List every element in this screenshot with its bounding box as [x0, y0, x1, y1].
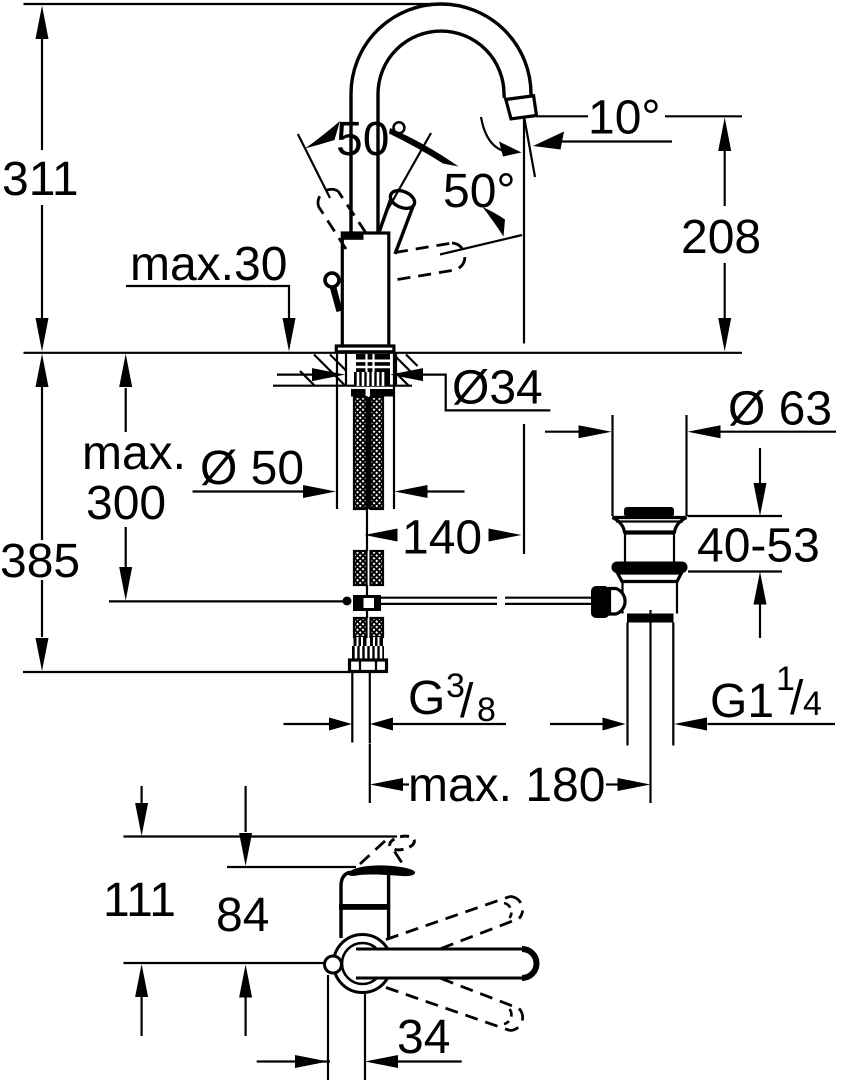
solid handle top ellipse: [388, 187, 418, 212]
top reference line: [24, 3, 442, 5]
solid handle right edge: [395, 205, 414, 254]
dim 140: [365, 529, 398, 542]
svg-text:385: 385: [0, 535, 80, 588]
dim 111: [141, 786, 143, 803]
braided hose middle: [354, 551, 367, 585]
aerator block: [506, 96, 537, 119]
waste flange ring: [612, 562, 688, 574]
svg-text:208: 208: [681, 211, 761, 264]
svg-text:G1: G1: [710, 675, 774, 728]
10deg leader line upper: [536, 115, 742, 117]
50deg lower arc arrow: [483, 207, 506, 237]
svg-text:Ø34: Ø34: [452, 362, 543, 415]
connection nut striped: [352, 646, 384, 660]
left dashed handle edge 2: [319, 207, 347, 250]
pivot small circle: [325, 956, 342, 973]
dim O34: [277, 374, 313, 376]
dashed capsule lower edge1: [441, 979, 519, 1009]
deck line: [24, 352, 743, 354]
pop-up rod segment: [366, 509, 368, 551]
40-53 reference lines: [688, 516, 783, 572]
hole edge lines: [346, 353, 396, 386]
spout arch inner: [378, 31, 504, 233]
mounting nut striped: [354, 372, 390, 386]
spout arch outer: [351, 4, 531, 233]
svg-text:311: 311: [2, 153, 79, 206]
svg-text:Ø 50: Ø 50: [200, 442, 304, 495]
hatch right: [394, 355, 418, 386]
body side: [341, 872, 389, 938]
svg-text:84: 84: [216, 889, 269, 942]
dashed capsule lower cap: [510, 1009, 523, 1031]
dim G1 1/4: [550, 723, 604, 725]
right dashed handle edge 1: [395, 243, 452, 253]
dashed capsule upper cap inner: [504, 903, 511, 918]
385 bottom reference line: [23, 671, 350, 673]
dim 34: [328, 975, 365, 1080]
right dashed handle edge 2: [398, 270, 456, 280]
10deg tilted stream line: [525, 119, 536, 177]
ball inner: [342, 943, 383, 984]
ball outer: [334, 935, 392, 993]
dim 208: [724, 150, 726, 322]
dashed capsule upper edge2: [441, 919, 519, 949]
lever knob dashed: [388, 834, 415, 852]
50deg arc arrow left: [305, 121, 340, 149]
dim max.180: [370, 778, 403, 791]
waste flare: [613, 518, 687, 533]
dashed capsule upper cap: [510, 897, 523, 919]
svg-text:Ø 63: Ø 63: [728, 383, 832, 436]
horizontal pop-up rod: [381, 598, 591, 604]
svg-text:300: 300: [86, 477, 166, 530]
lever knob connector dashes: [360, 840, 386, 864]
max300 reference line: [109, 600, 343, 602]
svg-text:4: 4: [803, 685, 822, 723]
body band: [339, 904, 390, 910]
waste actuator connector: [610, 589, 626, 615]
spout tip cut line: [505, 95, 534, 99]
left dashed handle cap: [318, 189, 338, 206]
right dashed handle cap: [452, 243, 465, 270]
svg-text:8: 8: [477, 691, 496, 729]
capsule thick end: [522, 949, 537, 978]
dashed capsule lower cap inner: [504, 1009, 511, 1024]
waste tailpipe: [628, 623, 674, 746]
counter lower line: [273, 385, 412, 387]
10deg vertical reference line: [523, 118, 525, 554]
hose crimp fittings: [354, 637, 367, 646]
dim G3/8: [284, 723, 333, 725]
50deg lower reference line: [440, 235, 522, 255]
pop-up knob rod: [330, 286, 343, 313]
body top black tab: [344, 234, 364, 240]
50deg left reference line: [298, 134, 330, 198]
dim max.300: [125, 388, 127, 567]
svg-text:max.30: max.30: [130, 238, 287, 291]
threaded shank block: [356, 354, 390, 372]
solid handle left edge: [380, 197, 392, 231]
dim 40-53: [759, 448, 761, 485]
braided hoses upper: [354, 397, 367, 509]
rod below tee: [366, 611, 368, 618]
dashed capsule upper edge1: [386, 897, 510, 940]
O63 extension lines: [613, 415, 687, 516]
braided hose lower: [354, 618, 367, 637]
waste centerline: [649, 610, 651, 803]
hatch left: [300, 355, 347, 386]
faucet axis extension: [369, 744, 371, 803]
10deg arc + arrow left: [481, 117, 505, 152]
svg-text:111: 111: [103, 874, 176, 927]
svg-text:/: /: [460, 675, 474, 728]
50deg right reference line: [388, 133, 431, 209]
svg-text:10°: 10°: [588, 92, 661, 145]
tee junction: [353, 595, 381, 611]
waste collar: [618, 573, 682, 582]
rod to tee: [366, 585, 368, 596]
pop-up knob on body: [325, 273, 339, 287]
10deg arrow right: [533, 132, 564, 150]
dim 84: [245, 786, 247, 832]
base flange: [336, 346, 394, 352]
dim 311: [41, 38, 43, 320]
dashed capsule lower edge2: [386, 988, 510, 1031]
dim 385: [41, 386, 43, 637]
washer bracket: [351, 389, 366, 397]
faucet body: [342, 233, 389, 346]
svg-text:/: /: [790, 672, 804, 725]
left dashed handle edge 1: [338, 191, 366, 233]
svg-text:G: G: [408, 672, 445, 725]
supply pipe G3/8: [352, 672, 370, 744]
O50 extension lines: [337, 352, 394, 509]
50deg arc arrow right: [389, 128, 459, 167]
svg-text:max. 180: max. 180: [408, 759, 605, 812]
waste cylinder: [625, 532, 674, 563]
svg-text:140: 140: [402, 512, 482, 565]
waste band: [627, 614, 674, 623]
rod in hose gap: [367, 397, 369, 509]
svg-text:max.: max.: [82, 427, 186, 480]
svg-text:50°: 50°: [336, 113, 409, 166]
solid lever capsule: [356, 949, 537, 978]
lever blade: [347, 865, 415, 876]
svg-text:40-53: 40-53: [697, 520, 820, 573]
svg-text:34: 34: [397, 1011, 450, 1064]
10deg leader line lower: [558, 140, 672, 142]
svg-text:50°: 50°: [443, 165, 516, 218]
waste actuator knob: [591, 586, 610, 618]
waste body: [623, 582, 678, 614]
nut lower flange: [350, 660, 387, 672]
waste cap: [624, 507, 674, 517]
